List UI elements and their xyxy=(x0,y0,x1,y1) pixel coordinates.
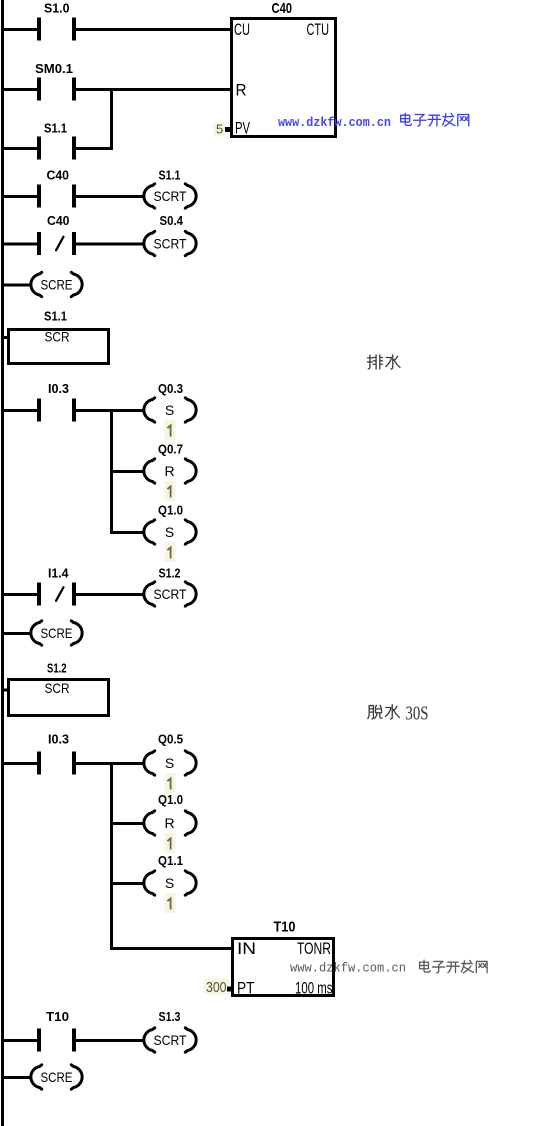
svg-text:S1.1: S1.1 xyxy=(44,309,67,324)
wire branch to Q0.7 coil xyxy=(113,470,145,473)
coil S1.2 SCRT xyxy=(144,582,196,606)
svg-text:S1.1: S1.1 xyxy=(159,168,181,183)
svg-text:Q1.0: Q1.0 xyxy=(158,503,183,518)
value 1 below Q0.3 xyxy=(165,420,176,440)
svg-text:PV: PV xyxy=(235,119,250,138)
coil Q1.0 R xyxy=(144,811,196,835)
svg-text:S1.1: S1.1 xyxy=(44,121,67,136)
wire rail to S1.0 xyxy=(4,28,37,31)
contact I0.3 N10 xyxy=(37,752,76,775)
svg-text:T10: T10 xyxy=(46,1009,69,1024)
wire rail to C40 contact xyxy=(4,195,37,198)
svg-text:S: S xyxy=(165,755,174,771)
svg-text:CTU: CTU xyxy=(307,20,330,39)
coil N12 SCRE xyxy=(31,1065,82,1089)
value 1 below Q1.0 N10 xyxy=(165,833,176,853)
contact T10 xyxy=(37,1029,76,1052)
text watermark gray CJK zi xyxy=(432,961,444,972)
coil S1.3 SCRT xyxy=(144,1028,196,1052)
svg-text:I0.3: I0.3 xyxy=(48,381,69,396)
contact S1.1 xyxy=(37,137,76,160)
wire rail to I1.4 xyxy=(4,593,37,596)
SCR box S1.2 xyxy=(9,680,109,716)
coil N4 SCRE xyxy=(31,272,82,296)
svg-text:SCRE: SCRE xyxy=(41,1069,73,1085)
coil S0.4 SCRT xyxy=(144,231,196,255)
contact I1.4 NC xyxy=(37,583,76,606)
svg-text:I1.4: I1.4 xyxy=(48,566,69,581)
SCR box S1.1 xyxy=(9,329,109,364)
svg-text:30S: 30S xyxy=(406,703,429,725)
svg-text:www.dzkfw.com.cn: www.dzkfw.com.cn xyxy=(290,962,406,976)
value 1 below Q1.1 xyxy=(165,893,176,913)
svg-text:www.dzkfw.com.cn: www.dzkfw.com.cn xyxy=(278,116,391,130)
text watermark blue CJK dian xyxy=(401,113,412,125)
svg-text:S0.4: S0.4 xyxy=(160,213,184,228)
wire branch to Q1.0 coil xyxy=(113,531,145,534)
svg-text:T10: T10 xyxy=(274,919,296,936)
wire S1.0 to CU xyxy=(76,28,230,31)
wire rail to SCRE coil 2 xyxy=(4,632,31,635)
svg-text:S: S xyxy=(165,402,174,418)
svg-text:SCRE: SCRE xyxy=(41,277,73,293)
svg-text:Q1.1: Q1.1 xyxy=(158,853,183,868)
PV connector square xyxy=(225,127,230,132)
wire rail to I0.3 xyxy=(4,409,37,412)
text annotation tuo xyxy=(368,705,382,719)
svg-text:SM0.1: SM0.1 xyxy=(35,61,73,76)
wire I1.4 to coil xyxy=(76,593,145,596)
wire T10 to coil xyxy=(76,1039,145,1042)
svg-text:S1.3: S1.3 xyxy=(159,1009,181,1024)
svg-text:SCRT: SCRT xyxy=(154,236,187,252)
wire branch vertical N6 xyxy=(110,409,113,534)
wire rail to S1.1 xyxy=(4,147,37,150)
wire branch to Q1.1 coil xyxy=(113,882,145,885)
wire branch junction xyxy=(110,88,113,150)
svg-text:CU: CU xyxy=(234,20,250,39)
contact C40 xyxy=(37,185,76,208)
PT connector square xyxy=(227,987,232,992)
svg-text:300: 300 xyxy=(206,979,227,996)
wire stub rail to SCR box 2 xyxy=(4,689,7,692)
svg-text:Q0.5: Q0.5 xyxy=(158,732,183,747)
svg-text:C40: C40 xyxy=(47,213,70,228)
text watermark blue CJK wang xyxy=(458,114,469,126)
wire I0.3 to Q0.5 coil xyxy=(76,762,145,765)
svg-text:5: 5 xyxy=(216,122,223,137)
svg-text:SCRE: SCRE xyxy=(41,625,73,641)
svg-text:C40: C40 xyxy=(272,0,293,17)
coil Q0.3 S xyxy=(144,398,196,422)
svg-text:R: R xyxy=(164,463,174,479)
counter C40 box xyxy=(232,19,336,137)
svg-text:S1.2: S1.2 xyxy=(47,661,67,676)
svg-text:SCRT: SCRT xyxy=(154,188,187,204)
value 1 below Q0.7 xyxy=(165,481,176,501)
svg-text:S: S xyxy=(165,875,174,891)
wire branch vertical N10 xyxy=(110,762,113,950)
left power rail xyxy=(1,0,4,1126)
wire I0.3 to Q0.3 coil xyxy=(76,409,145,412)
svg-text:I0.3: I0.3 xyxy=(48,732,69,747)
text annotation shui (paishui) xyxy=(386,355,400,369)
svg-text:S1.2: S1.2 xyxy=(159,566,181,581)
text watermark blue CJK fa xyxy=(443,113,455,126)
svg-text:Q0.3: Q0.3 xyxy=(158,381,183,396)
coil N8 SCRE xyxy=(31,621,82,645)
svg-text:S1.0: S1.0 xyxy=(44,1,70,16)
coil Q1.0 S xyxy=(144,520,196,544)
text watermark blue CJK zi xyxy=(414,114,426,126)
text annotation pai xyxy=(368,355,383,369)
value 1 below Q0.5 xyxy=(165,773,176,793)
wire rail to SCRE coil 3 xyxy=(4,1076,31,1079)
svg-text:SCRT: SCRT xyxy=(154,586,187,602)
coil Q0.5 S xyxy=(144,751,196,775)
svg-text:SCR: SCR xyxy=(45,329,70,345)
wire stub rail to SCR box xyxy=(4,336,7,339)
coil Q1.1 S xyxy=(144,871,196,895)
coil S1.1 SCRT xyxy=(144,184,196,208)
svg-text:C40: C40 xyxy=(47,168,70,183)
text watermark gray CJK dian xyxy=(420,960,430,972)
text annotation shui (tuoshui) xyxy=(385,705,399,719)
svg-text:TONR: TONR xyxy=(297,939,331,958)
wire rail to SM0.1 xyxy=(4,88,37,91)
svg-text:R: R xyxy=(164,815,174,831)
contact C40 NC xyxy=(37,232,76,255)
svg-text:Q1.0: Q1.0 xyxy=(158,792,183,807)
coil Q0.7 R xyxy=(144,459,196,483)
text watermark gray CJK fa xyxy=(461,960,473,972)
contact S1.0 xyxy=(37,18,76,41)
svg-text:SCRT: SCRT xyxy=(154,1032,187,1048)
wire rail to SCRE coil xyxy=(4,284,31,287)
text watermark blue CJK kai xyxy=(428,115,441,126)
svg-text:R: R xyxy=(236,81,247,100)
timer T10 box xyxy=(233,939,334,996)
wire rail to I0.3 N10 xyxy=(4,762,37,765)
svg-text:PT: PT xyxy=(237,979,255,998)
svg-text:100 ms: 100 ms xyxy=(295,979,333,998)
wire C40 to coil xyxy=(76,195,145,198)
svg-text:SCR: SCR xyxy=(45,680,70,696)
wire rail to T10 contact xyxy=(4,1039,37,1042)
value 5 at PV xyxy=(214,122,225,137)
svg-text:S: S xyxy=(165,524,174,540)
contact I0.3 xyxy=(37,399,76,422)
contact SM0.1 xyxy=(37,78,76,101)
svg-text:IN: IN xyxy=(237,939,256,958)
wire branch to Q1.0 R coil xyxy=(113,822,145,825)
wire SM0.1 to R xyxy=(76,88,230,91)
text watermark gray CJK wang xyxy=(476,961,487,972)
wire rail to C40 NC contact xyxy=(4,243,37,246)
text watermark gray CJK kai xyxy=(447,962,459,973)
value 1 below Q1.0 xyxy=(165,542,176,562)
wire S1.1 to branch xyxy=(76,147,113,150)
wire branch to T10 IN xyxy=(113,947,231,950)
wire C40 NC to coil xyxy=(76,243,145,246)
value 300 at PT xyxy=(204,979,230,996)
svg-text:Q0.7: Q0.7 xyxy=(158,442,183,457)
